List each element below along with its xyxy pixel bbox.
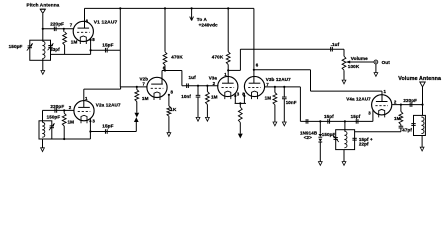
svg-text:1M: 1M [71,40,78,45]
svg-text:.1uf: .1uf [331,42,340,47]
svg-text:To A: To A [197,17,208,22]
svg-text:7: 7 [266,82,269,87]
svg-text:15pf: 15pf [351,114,361,119]
svg-text:V2a 12AU7: V2a 12AU7 [96,102,121,107]
svg-text:6: 6 [163,66,166,71]
svg-text:3: 3 [92,119,95,124]
svg-text:1K: 1K [170,107,177,112]
svg-text:Volume: Volume [351,56,368,61]
svg-text:15pF: 15pF [102,124,113,129]
svg-text:2: 2 [213,81,216,86]
svg-text:<2>: <2> [304,135,312,140]
svg-text:7: 7 [142,81,145,86]
svg-text:1: 1 [85,96,88,101]
svg-text:1M: 1M [394,116,401,121]
svg-text:1uf: 1uf [189,75,197,80]
svg-text:1M: 1M [142,96,149,101]
svg-text:15pF: 15pF [102,42,113,47]
svg-text:47pf: 47pf [402,127,412,132]
svg-text:1: 1 [224,72,227,77]
svg-text:6: 6 [256,63,259,68]
svg-text:1M: 1M [68,120,75,125]
svg-text:3: 3 [237,91,240,96]
svg-text:8: 8 [171,90,174,95]
svg-text:8: 8 [92,37,95,42]
svg-text:V3a: V3a [209,75,218,80]
svg-text:Volume Antenna: Volume Antenna [398,76,441,82]
svg-text:150pF: 150pF [322,132,336,137]
svg-text:2: 2 [394,100,397,105]
svg-text:10nF: 10nF [286,100,297,105]
svg-text:100K: 100K [348,64,360,69]
svg-text:V1 12AU7: V1 12AU7 [94,20,118,26]
svg-text:6: 6 [86,18,89,23]
svg-text:150pF: 150pF [47,115,61,120]
svg-text:15pf: 15pf [324,114,334,119]
svg-text:470K: 470K [171,55,183,60]
svg-text:3: 3 [368,110,371,115]
svg-text:2: 2 [69,105,72,110]
svg-text:220pF: 220pF [403,98,417,103]
svg-text:10nf: 10nf [181,94,191,99]
svg-text:+240vdc: +240vdc [199,23,218,28]
svg-text:220pF: 220pF [50,21,64,26]
svg-text:33pf: 33pf [50,47,60,52]
svg-text:22pf: 22pf [359,142,369,147]
svg-text:470K: 470K [212,54,224,59]
svg-text:Out: Out [382,60,391,65]
svg-text:7: 7 [70,23,73,28]
svg-text:Pitch Antenna: Pitch Antenna [27,3,60,8]
svg-text:150pF: 150pF [9,44,23,49]
svg-text:1M: 1M [265,96,272,101]
svg-text:1: 1 [384,89,387,94]
svg-text:1M: 1M [211,94,218,99]
svg-text:220pF: 220pF [50,104,64,109]
svg-text:V3b 12AU7: V3b 12AU7 [266,77,291,82]
svg-text:V4a 12AU7: V4a 12AU7 [346,97,371,102]
